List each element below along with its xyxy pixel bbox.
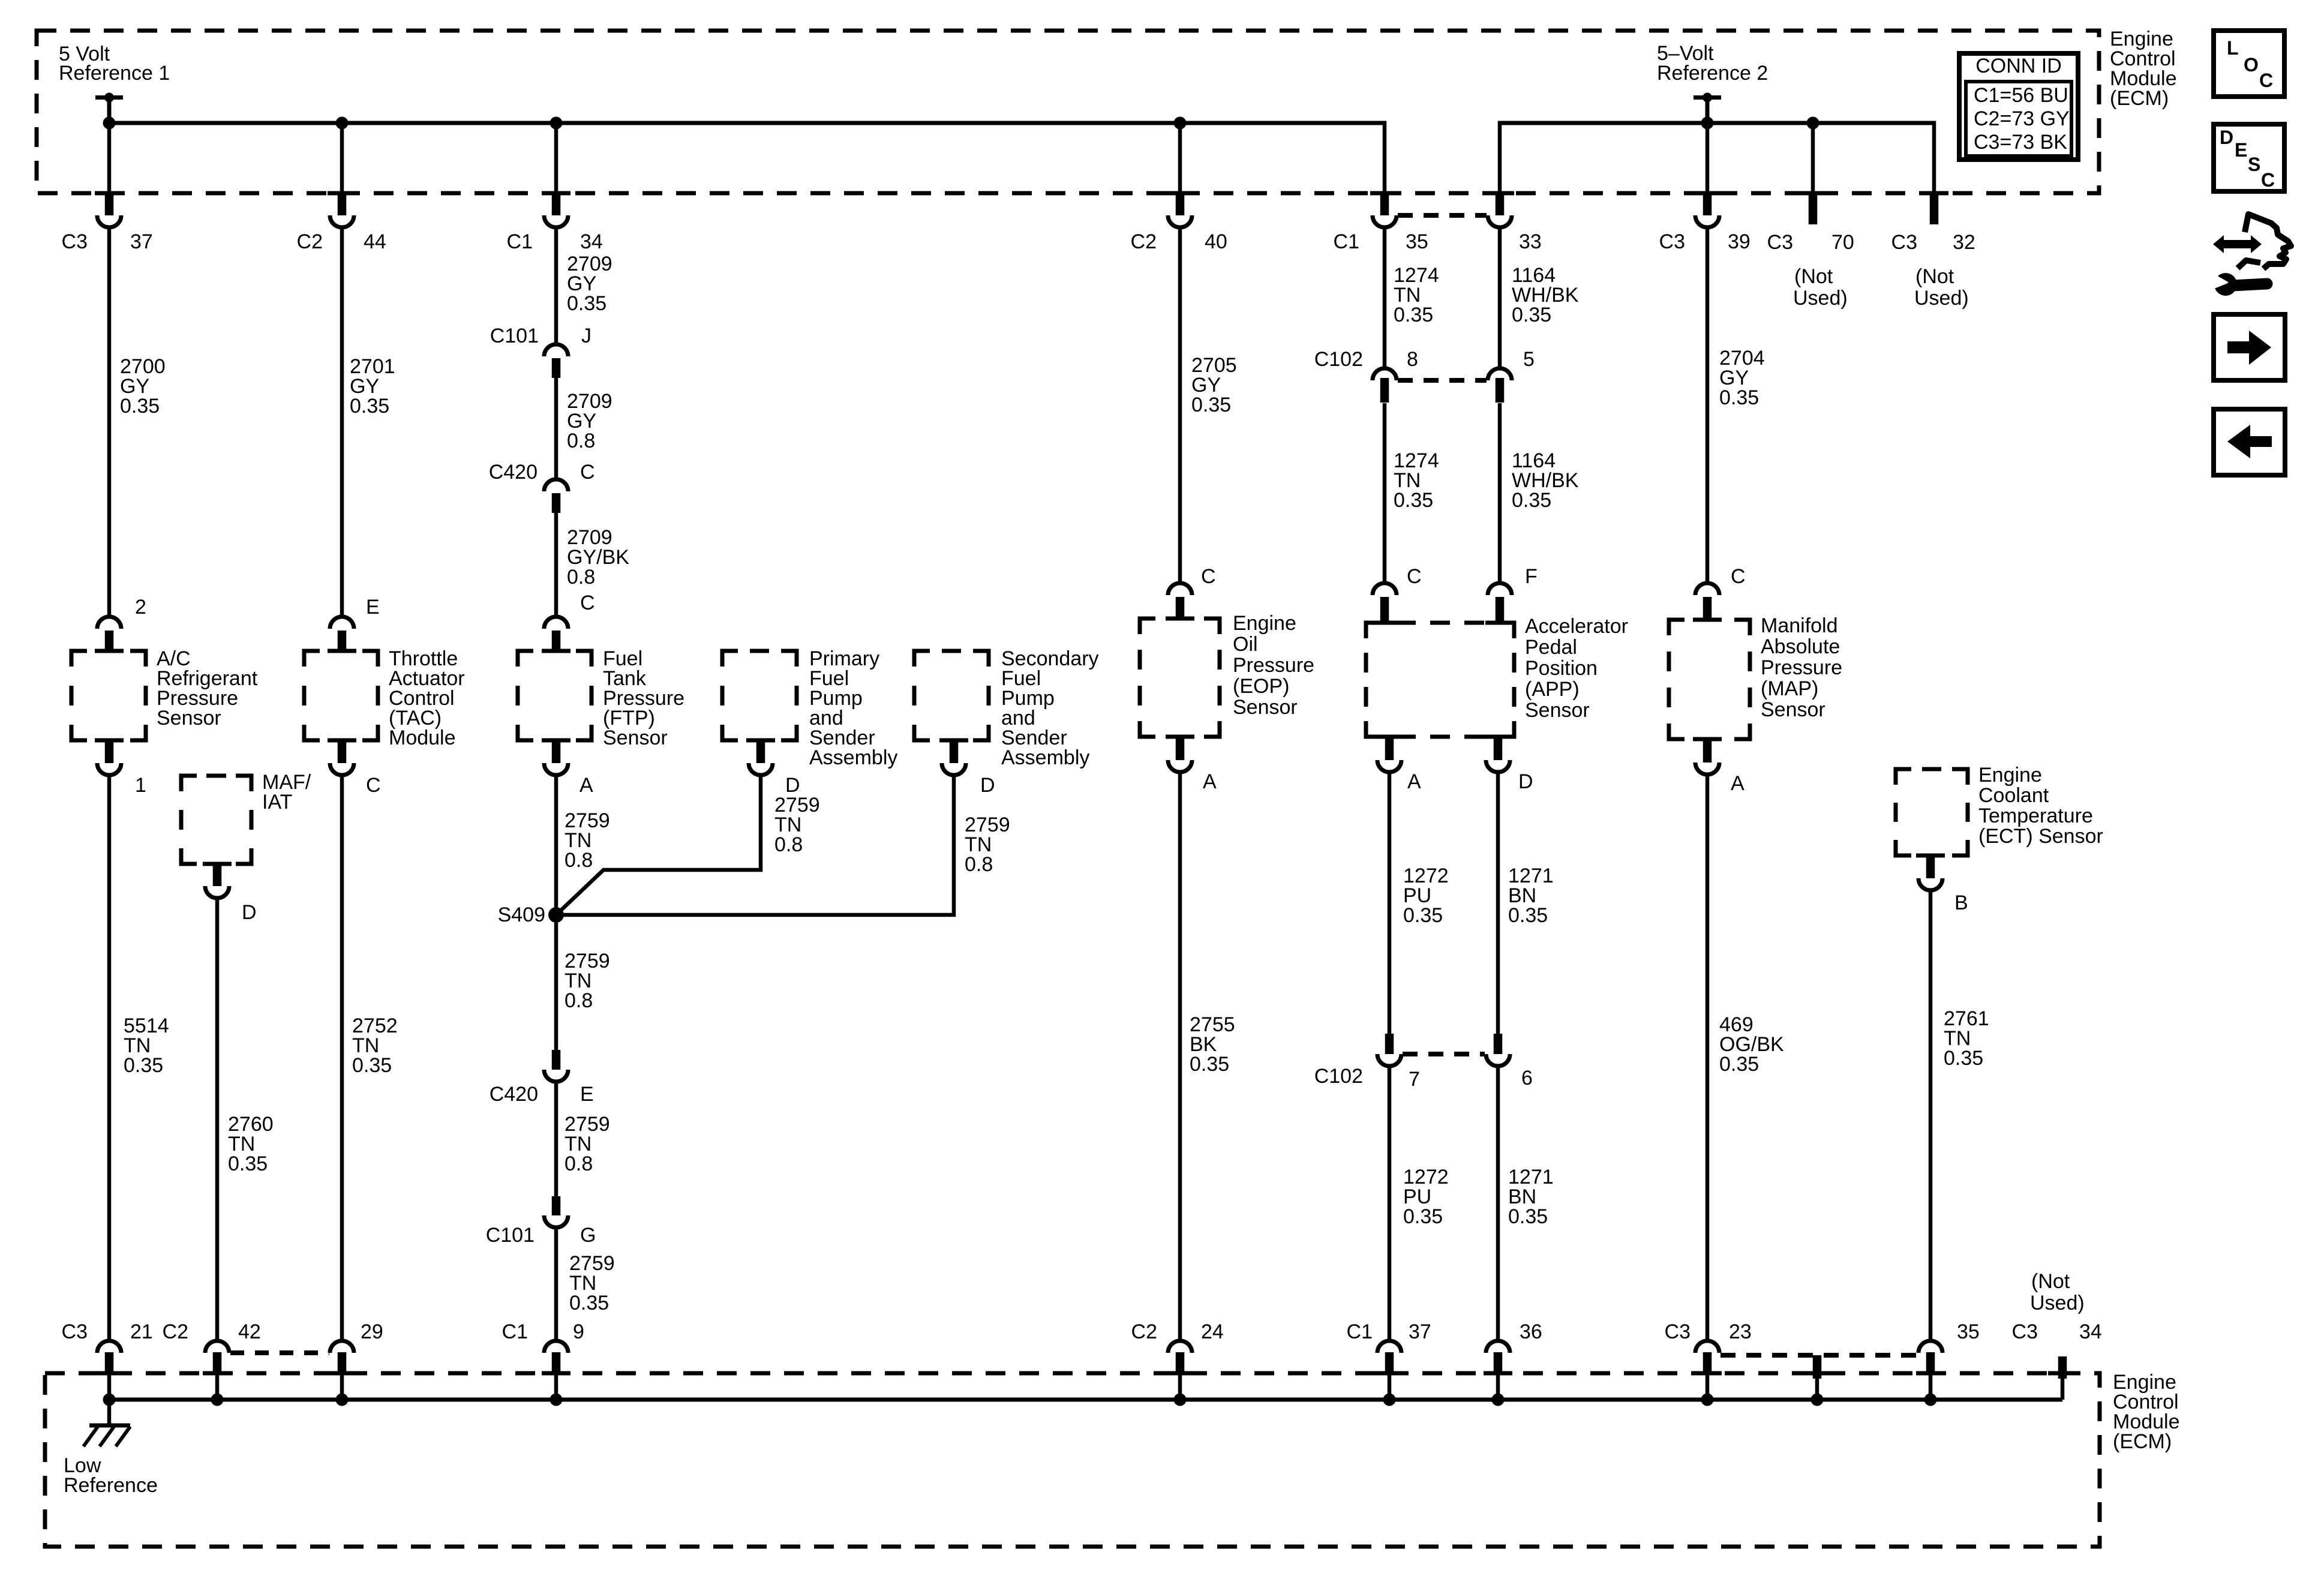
svg-text:(Not: (Not	[1915, 265, 1954, 288]
wire: circuit 2705 GY (ECM 40 to EOP sensor)	[1178, 228, 1182, 583]
connector MAF/IAT pin D	[203, 864, 232, 898]
connector C420 pin C	[544, 479, 568, 513]
svg-text:Sensor: Sensor	[1761, 698, 1825, 721]
wire: circuit 2709 GY/BK 0.8 (C420 to FTP sensor)	[554, 513, 559, 617]
svg-text:C: C	[1407, 565, 1422, 588]
wire: circuit 2700 GY (ECM 37 to A/C sensor)	[107, 228, 112, 617]
connector ECM pin 34 (top row)	[542, 193, 571, 227]
wire: 5V reference bus segment B	[1500, 121, 1934, 194]
label: Low Reference	[64, 1454, 158, 1497]
connector C101 pin J	[544, 344, 568, 378]
wire: circuit 1272 PU (C102-7 to ECM 37)	[1388, 1067, 1392, 1339]
svg-text:Pedal: Pedal	[1525, 636, 1577, 659]
label: Manifold Absolute Pressure (MAP) Sensor	[1761, 614, 1842, 721]
wire: circuit 2752 TN (TAC to ECM 29)	[340, 776, 344, 1339]
dashed connector pair line 23-35	[1721, 1353, 1917, 1358]
label pin C	[1407, 565, 1422, 588]
svg-text:0.35: 0.35	[1508, 904, 1548, 927]
svg-text:Used): Used)	[1914, 287, 1969, 310]
label wire 2701 GY 0.35	[350, 355, 395, 418]
connector TAC pin E	[328, 617, 356, 652]
svg-text:D: D	[242, 901, 257, 924]
label C2 (pin 44)	[297, 230, 323, 253]
label C1 (pin 35)	[1334, 230, 1359, 253]
wire: low reference bus	[109, 1398, 2062, 1402]
Engine Coolant Temperature (ECT) Sensor box	[1896, 769, 1968, 855]
label: Engine Oil Pressure (EOP) Sensor	[1233, 612, 1314, 719]
label pin F	[1525, 565, 1538, 588]
wire from pin 42 to low ref bus	[215, 1374, 220, 1400]
junction dots on low ref bus	[103, 1394, 1937, 1406]
label pin 5	[1523, 348, 1535, 371]
label wire 1274 TN 0.35	[1394, 264, 1439, 326]
connector A/C sensor pin 2	[95, 617, 124, 652]
svg-text:C420: C420	[490, 1083, 538, 1106]
label pin number 40	[1205, 230, 1227, 253]
dashed connector pair line C102 7-6	[1403, 1052, 1485, 1056]
svg-text:Accelerator: Accelerator	[1525, 615, 1628, 638]
wire: circuit 1274 TN (C102-8 to APP C)	[1383, 403, 1387, 583]
svg-text:Engine: Engine	[1978, 764, 2042, 786]
connector primary pump pin D	[746, 740, 775, 775]
label wire 2755 BK 0.35	[1190, 1013, 1235, 1076]
Accelerator Pedal Position (APP) Sensor box	[1366, 623, 1514, 737]
svg-text:Used): Used)	[2030, 1292, 2085, 1314]
connector ECM pin 36 (bottom row)	[1484, 1341, 1512, 1374]
label pin A	[1407, 770, 1421, 793]
svg-text:(APP): (APP)	[1525, 678, 1580, 701]
labels C2 24	[1131, 1320, 1224, 1343]
label pin 1	[135, 774, 146, 797]
svg-text:S: S	[2248, 154, 2260, 175]
svg-text:0.8: 0.8	[774, 833, 803, 856]
wire: circuit 5514 TN (A/C sensor to ECM 21)	[107, 776, 112, 1339]
labels C420 C	[489, 461, 595, 484]
svg-text:Position: Position	[1525, 657, 1598, 680]
connector ECM pin 9 (bottom row)	[542, 1341, 571, 1374]
MAF/IAT sensor box	[181, 776, 251, 864]
label: MAF/IAT	[262, 771, 311, 813]
connector APP pin D	[1484, 737, 1512, 772]
svg-text:B: B	[1954, 891, 1968, 914]
labels C3 21	[62, 1320, 153, 1343]
label wire 2700 GY 0.35	[120, 355, 166, 418]
wire: S409 branch to secondary fuel pump D	[556, 775, 954, 915]
svg-text:44: 44	[364, 230, 386, 253]
svg-text:1: 1	[135, 774, 146, 797]
svg-text:0.35: 0.35	[569, 1292, 609, 1314]
svg-text:A: A	[1407, 770, 1421, 793]
connector ECM pin 42 (bottom row)	[203, 1341, 232, 1374]
connector ECM pin 39 (top row)	[1693, 193, 1722, 227]
labels C1 37	[1347, 1320, 1431, 1343]
label wire 2760 TN 0.35	[228, 1113, 274, 1175]
svg-text:E: E	[2235, 139, 2247, 161]
label pin number 39	[1728, 230, 1750, 253]
svg-text:Reference: Reference	[64, 1474, 158, 1497]
svg-text:C3: C3	[2012, 1320, 2038, 1343]
svg-text:35: 35	[1406, 230, 1428, 253]
connector EOP pin C	[1166, 583, 1194, 619]
svg-text:E: E	[366, 596, 380, 619]
svg-text:C3: C3	[62, 1320, 88, 1343]
label wire 2759 TN 0.8 (below S409)	[565, 950, 610, 1012]
wire from pin 9 to low ref bus	[554, 1374, 559, 1400]
labels C2 42	[163, 1320, 261, 1343]
svg-text:Sensor: Sensor	[1233, 696, 1298, 719]
label wire 2709 GY 0.8	[567, 390, 612, 452]
svg-text:C3: C3	[1665, 1320, 1691, 1343]
label wire 2705 GY 0.35	[1191, 354, 1237, 416]
svg-text:C3: C3	[1659, 230, 1685, 253]
svg-text:0.35: 0.35	[350, 395, 389, 418]
svg-text:E: E	[580, 1083, 594, 1106]
svg-text:(MAP): (MAP)	[1761, 677, 1818, 700]
label pin number 37	[130, 230, 153, 253]
labels C101 G	[486, 1224, 596, 1247]
svg-text:40: 40	[1205, 230, 1227, 253]
label pin A	[1731, 772, 1744, 795]
connector A/C sensor pin 1	[95, 740, 124, 775]
svg-text:23: 23	[1729, 1320, 1752, 1343]
connector MAP pin C	[1693, 583, 1722, 620]
svg-text:C: C	[1201, 565, 1216, 588]
label C1 (pin 34)	[507, 230, 533, 253]
svg-text:0.35: 0.35	[1508, 1205, 1548, 1228]
svg-text:35: 35	[1957, 1320, 1980, 1343]
svg-text:Sensor: Sensor	[603, 727, 668, 749]
label wire 2759 TN 0.35	[569, 1252, 615, 1314]
svg-text:Absolute: Absolute	[1761, 635, 1840, 658]
svg-text:(Not: (Not	[1794, 265, 1833, 288]
connector APP pin A	[1375, 737, 1404, 772]
labels C420 E	[490, 1083, 594, 1106]
connector stub between pins 23 and 35	[1803, 1355, 1831, 1400]
svg-text:C2=73 GY: C2=73 GY	[1974, 107, 2070, 130]
svg-text:C: C	[1731, 565, 1746, 588]
ground (Low Reference)	[83, 1400, 130, 1446]
label pin A	[580, 774, 593, 797]
labels C3 23	[1665, 1320, 1752, 1343]
svg-text:C1: C1	[1334, 230, 1359, 253]
label: Engine Control Module (ECM) bottom	[2113, 1371, 2180, 1453]
svg-text:24: 24	[1201, 1320, 1224, 1343]
svg-text:C2: C2	[1131, 230, 1157, 253]
icon: forward arrow box	[2214, 314, 2285, 380]
svg-text:8: 8	[1407, 348, 1418, 371]
label C3 (pin 37)	[62, 230, 88, 253]
svg-text:C2: C2	[1131, 1320, 1157, 1343]
svg-text:32: 32	[1953, 231, 1975, 254]
svg-text:S409: S409	[498, 903, 545, 926]
svg-text:0.35: 0.35	[1190, 1053, 1229, 1076]
svg-text:C3: C3	[1891, 231, 1917, 254]
svg-text:7: 7	[1409, 1068, 1420, 1091]
connector APP pin F	[1485, 583, 1514, 623]
svg-text:(EOP): (EOP)	[1233, 675, 1289, 698]
wire: circuit 2709 GY 0.8 (C101 to C420)	[554, 378, 559, 480]
wire: circuit 1271 BN (APP D to C102-6)	[1496, 773, 1500, 1034]
ECM bottom dashed box (Engine Control Module)	[45, 1373, 2100, 1547]
svg-text:C1: C1	[502, 1320, 528, 1343]
connector ECM pin 40 (top row)	[1166, 193, 1194, 227]
svg-text:C101: C101	[486, 1224, 535, 1247]
connector ECM pin 33 (top row)	[1485, 193, 1514, 227]
label: Accelerator Pedal Position (APP) Sensor	[1525, 615, 1628, 722]
label pin number 34	[580, 230, 603, 253]
svg-text:0.35: 0.35	[1944, 1047, 1983, 1070]
connector C420 pin E	[544, 1050, 568, 1082]
svg-text:37: 37	[1409, 1320, 1431, 1343]
svg-text:0.35: 0.35	[1719, 386, 1759, 409]
dashed connector pair line C102 8-5	[1398, 378, 1487, 383]
labels pin D / wire 2759 TN 0.8	[965, 774, 1010, 876]
label pin D	[1518, 770, 1533, 793]
svg-text:0.35: 0.35	[1403, 904, 1443, 927]
svg-text:34: 34	[580, 230, 603, 253]
label C2 (pin 40)	[1131, 230, 1157, 253]
Secondary Fuel Pump and Sender Assembly box	[914, 651, 989, 740]
label pin number 44	[364, 230, 386, 253]
label: Fuel Tank Pressure (FTP) Sensor	[603, 647, 684, 749]
icon: DESC box	[2214, 124, 2284, 191]
label pin C	[1201, 565, 1216, 588]
svg-text:C: C	[366, 774, 381, 797]
svg-text:70: 70	[1831, 231, 1854, 254]
svg-text:36: 36	[1520, 1320, 1542, 1343]
svg-text:33: 33	[1519, 230, 1542, 253]
svg-text:0.35: 0.35	[1512, 489, 1551, 512]
connector ECM pin 35 (top row)	[1370, 193, 1399, 227]
svg-text:0.35: 0.35	[1191, 394, 1231, 416]
svg-text:D: D	[2220, 127, 2233, 148]
label S409	[498, 903, 545, 926]
svg-text:Reference 2: Reference 2	[1657, 62, 1768, 85]
label wire 1274 TN 0.35 (lower)	[1394, 449, 1439, 512]
ECM top dashed box (Engine Control Module)	[37, 31, 2099, 193]
wire: 5V reference bus segment A	[109, 121, 1385, 194]
label wire 2759 TN 0.8 (below C420 E)	[565, 1113, 610, 1175]
wire from pin 36 to low ref bus	[1496, 1374, 1500, 1400]
wire: circuit 2709 GY 0.35 (ECM 34 to C101)	[554, 228, 559, 346]
svg-text:C1: C1	[507, 230, 533, 253]
label pin C	[1731, 565, 1746, 588]
svg-text:Oil: Oil	[1233, 633, 1258, 656]
svg-text:Used): Used)	[1793, 287, 1848, 310]
power symbol: 5 Volt Reference 1	[95, 93, 123, 124]
svg-text:0.35: 0.35	[352, 1054, 392, 1077]
labels C102 7	[1314, 1065, 1420, 1091]
svg-text:2: 2	[135, 596, 146, 619]
label pin 2	[135, 596, 146, 619]
label pin 6	[1521, 1067, 1533, 1089]
wire: circuit 1272 PU (APP A to C102-7)	[1388, 773, 1392, 1034]
wire from pin 29 to low ref bus	[340, 1374, 344, 1400]
svg-text:C2: C2	[297, 230, 323, 253]
label wire 1164 WH/BK 0.35 (lower)	[1512, 449, 1579, 512]
dashed connector pair line pins 35-33	[1398, 213, 1487, 218]
svg-text:Temperature: Temperature	[1978, 804, 2093, 827]
connector ECM pin 35 (bottom row)	[1916, 1341, 1945, 1374]
power symbol: 5-Volt Reference 2	[1694, 93, 1721, 124]
connector ECM pin 29 (bottom row)	[328, 1341, 356, 1374]
svg-text:O: O	[2244, 54, 2259, 76]
wire from pin 23 to low ref bus	[1706, 1374, 1710, 1400]
svg-text:F: F	[1525, 565, 1538, 588]
svg-text:Module: Module	[389, 727, 456, 749]
connector TAC pin C	[328, 740, 356, 775]
connector ECM pin 37 (top row)	[95, 193, 124, 227]
label wire 2709 GY/BK 0.8	[567, 526, 629, 589]
label wire 1271 BN 0.35 (lower)	[1508, 1166, 1554, 1228]
CONN ID table	[1959, 53, 2078, 160]
wire: circuit 2759 TN 0.8 (FTP A to S409)	[554, 776, 559, 915]
svg-text:Sensor: Sensor	[157, 707, 221, 730]
svg-text:(ECT) Sensor: (ECT) Sensor	[1978, 825, 2103, 848]
wire: circuit 2759 TN 0.8 (S409 to C420 E)	[554, 923, 559, 1050]
label: Throttle Actuator Control (TAC) Module	[389, 647, 465, 749]
label: Engine Coolant Temperature (ECT) Sensor	[1978, 764, 2103, 848]
svg-text:(ECM): (ECM)	[2110, 87, 2169, 110]
connector C102 pin 6	[1486, 1034, 1510, 1066]
svg-text:A: A	[1203, 770, 1217, 793]
label pin B	[1954, 891, 1968, 914]
svg-text:21: 21	[130, 1320, 153, 1343]
svg-text:Coolant: Coolant	[1978, 784, 2049, 807]
wire: circuit 2761 TN (ECT to ECM 35)	[1929, 891, 1933, 1339]
svg-text:34: 34	[2079, 1320, 2102, 1343]
svg-text:0.8: 0.8	[565, 989, 593, 1012]
label C3 (pin 39)	[1659, 230, 1685, 253]
connector secondary pump pin D	[939, 740, 968, 775]
connector ECT pin B	[1916, 855, 1945, 890]
icon: hotlink (double arrow + wrench)	[2210, 214, 2291, 296]
svg-text:9: 9	[573, 1320, 584, 1343]
label wire 1272 PU 0.35	[1403, 864, 1449, 927]
wire drops from top bus to ECM pins	[109, 123, 1813, 194]
connector ECM pin 24 (bottom row)	[1166, 1341, 1194, 1374]
label pin 36	[1520, 1320, 1542, 1343]
svg-text:0.8: 0.8	[567, 430, 595, 452]
labels C102 8	[1314, 348, 1418, 371]
svg-text:0.35: 0.35	[1512, 304, 1551, 326]
wire: S409 branch to primary fuel pump D	[556, 775, 761, 915]
label wire 2759 TN 0.8	[565, 809, 610, 872]
label: Engine Control Module (ECM) top	[2110, 28, 2177, 110]
connector ECM pin 70 (Not Used)	[1798, 193, 1827, 224]
label: 5 Volt Reference 1	[59, 43, 170, 85]
label wire 2709 GY 0.35	[567, 253, 612, 315]
Engine Oil Pressure (EOP) Sensor box	[1140, 619, 1220, 737]
connector EOP pin A	[1166, 737, 1194, 772]
connector C101 pin G	[544, 1196, 568, 1227]
svg-text:C2: C2	[163, 1320, 188, 1343]
connector ECM pin 21 (bottom row)	[95, 1341, 124, 1374]
wire: circuit 2759 TN 0.8 (C420 to C101)	[554, 1082, 559, 1196]
svg-text:0.35: 0.35	[228, 1152, 268, 1175]
svg-text:Reference 1: Reference 1	[59, 62, 170, 85]
svg-text:C420: C420	[489, 461, 538, 484]
svg-text:37: 37	[130, 230, 153, 253]
svg-text:Manifold: Manifold	[1761, 614, 1838, 637]
connector C102 pin 8	[1373, 368, 1397, 403]
Manifold Absolute Pressure (MAP) Sensor box	[1669, 620, 1750, 739]
svg-text:G: G	[580, 1224, 596, 1247]
labels C101 J	[490, 325, 591, 347]
wire: circuit 1274 TN (ECM 35 to C102-8)	[1383, 228, 1387, 370]
label pin D	[242, 901, 257, 924]
svg-text:C102: C102	[1314, 1065, 1363, 1088]
svg-text:D: D	[980, 774, 995, 797]
svg-text:0.35: 0.35	[1394, 304, 1433, 326]
svg-text:C102: C102	[1314, 348, 1363, 371]
label: Secondary Fuel Pump and Sender Assembly	[1001, 647, 1099, 769]
label wire 1164 WH/BK 0.35	[1512, 264, 1579, 326]
svg-text:Engine: Engine	[1233, 612, 1296, 635]
wire: circuit 2701 GY (ECM 44 to TAC module)	[340, 228, 344, 617]
label wire 469 OG/BK 0.35	[1719, 1013, 1784, 1076]
connector C102 pin 7	[1377, 1034, 1401, 1066]
labels C3 70 (Not Used)	[1767, 231, 1854, 310]
wire from pin 37 to low ref bus	[1388, 1374, 1392, 1400]
connector ECM pin 32 (Not Used)	[1920, 193, 1948, 224]
svg-text:C1: C1	[1347, 1320, 1373, 1343]
connector ECM pin 37 (bottom row)	[1375, 1341, 1404, 1374]
label: Primary Fuel Pump and Sender Assembly	[809, 647, 897, 769]
svg-text:Pressure: Pressure	[1761, 656, 1842, 679]
svg-text:0.8: 0.8	[965, 853, 993, 876]
svg-text:0.35: 0.35	[1403, 1205, 1443, 1228]
svg-text:29: 29	[361, 1320, 383, 1343]
wire: circuit 2755 BK (EOP to ECM 24)	[1178, 773, 1182, 1339]
svg-text:A: A	[1731, 772, 1744, 795]
svg-text:C: C	[580, 461, 595, 484]
svg-text:0.35: 0.35	[120, 395, 160, 418]
labels C3 34 (Not Used)	[2012, 1270, 2102, 1343]
svg-text:C: C	[580, 592, 595, 614]
dashed connector pair line pins 42-29	[230, 1350, 329, 1355]
label pin C	[580, 592, 595, 614]
connector C102 pin 5	[1488, 368, 1512, 403]
label pin 29	[361, 1320, 383, 1343]
wire: circuit 469 OG/BK (MAP to ECM 23)	[1706, 775, 1710, 1339]
label pin 35	[1957, 1320, 1980, 1343]
label: A/C Refrigerant Pressure Sensor	[157, 647, 258, 730]
svg-text:(ECM): (ECM)	[2113, 1430, 2172, 1453]
svg-text:6: 6	[1521, 1067, 1533, 1089]
svg-text:0.8: 0.8	[565, 1152, 593, 1175]
svg-text:0.8: 0.8	[565, 849, 593, 872]
label pin number 35	[1406, 230, 1428, 253]
svg-text:J: J	[581, 325, 591, 347]
svg-text:C: C	[2259, 70, 2273, 91]
connector ECM pin 44 (top row)	[328, 193, 356, 227]
svg-text:CONN ID: CONN ID	[1975, 55, 2062, 77]
svg-text:Pressure: Pressure	[1233, 654, 1314, 677]
svg-text:42: 42	[238, 1320, 261, 1343]
svg-text:C: C	[2261, 169, 2275, 191]
label: 5-Volt Reference 2	[1657, 42, 1768, 85]
Primary Fuel Pump and Sender Assembly box	[722, 651, 797, 740]
svg-text:D: D	[1518, 770, 1533, 793]
svg-text:0.35: 0.35	[1719, 1053, 1759, 1076]
label pin number 33	[1519, 230, 1542, 253]
wire from pin 35 to low ref bus	[1929, 1374, 1933, 1400]
label wire 5514 TN 0.35	[124, 1014, 169, 1077]
icon: back arrow box	[2214, 409, 2285, 475]
svg-text:Assembly: Assembly	[1001, 746, 1089, 769]
labels pin D / wire 2759 TN 0.8	[774, 774, 820, 856]
